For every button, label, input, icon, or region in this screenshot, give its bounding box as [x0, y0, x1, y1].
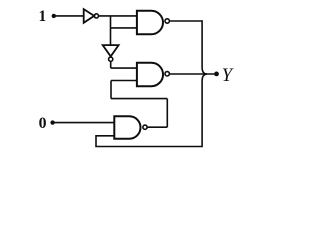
svg-text:Y: Y — [222, 66, 234, 86]
svg-text:0: 0 — [39, 115, 47, 132]
svg-text:1: 1 — [39, 8, 47, 25]
